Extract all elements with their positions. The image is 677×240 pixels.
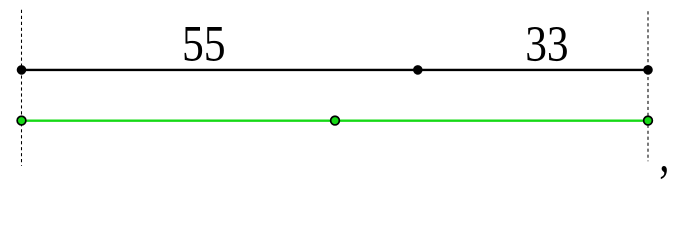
svg-text:33: 33 [525, 16, 568, 72]
svg-text:55: 55 [182, 15, 226, 71]
green midpoint marker [331, 116, 340, 125]
green endpoint marker right [644, 116, 653, 125]
black endpoint dot left [17, 65, 27, 75]
right dashed boundary line [647, 11, 649, 161]
black division dot [413, 65, 423, 75]
svg-text:,: , [659, 126, 669, 182]
black endpoint dot right [643, 65, 653, 75]
black segment line [22, 69, 649, 71]
green endpoint marker left [17, 116, 26, 125]
left dashed boundary line [21, 10, 23, 166]
green segment line [22, 119, 649, 121]
